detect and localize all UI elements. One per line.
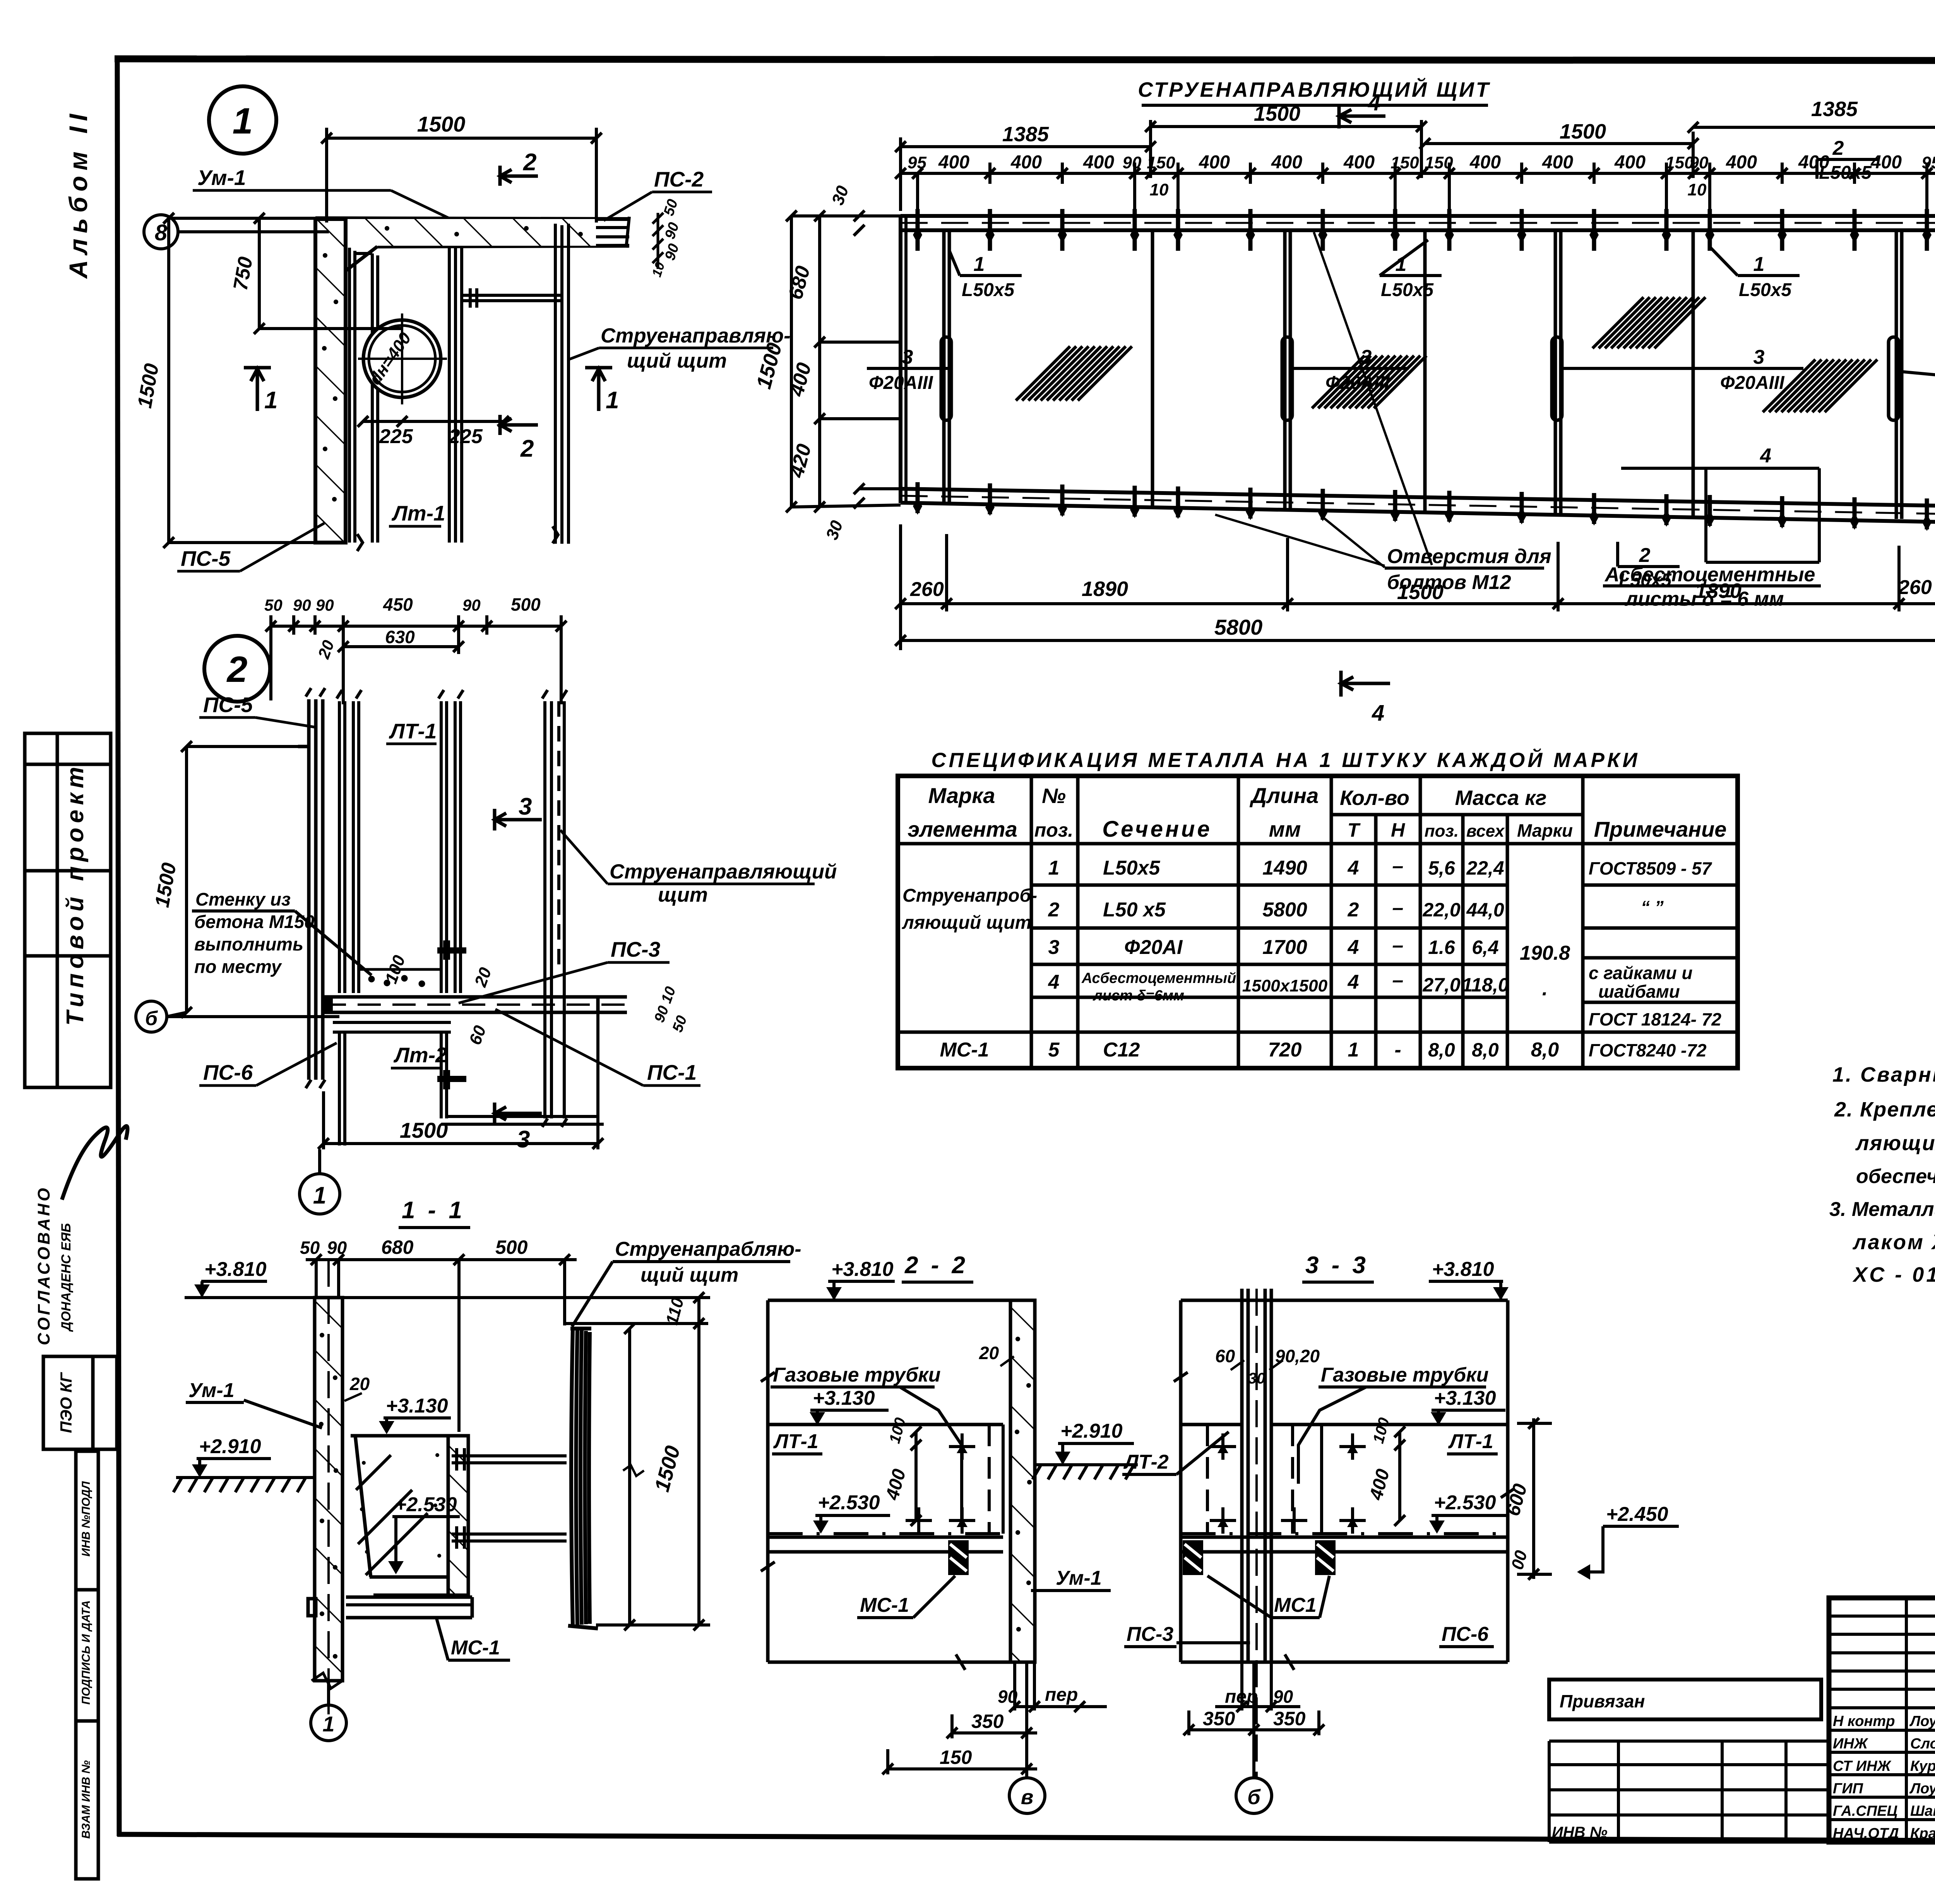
svg-text:ПС-5: ПС-5 <box>203 693 253 717</box>
svg-text:Альбом II: Альбом II <box>64 109 92 279</box>
svg-text:Струенапроб-: Струенапроб- <box>902 885 1037 906</box>
svg-text:ДОНАДЕНС ЕЯБ: ДОНАДЕНС ЕЯБ <box>59 1223 74 1332</box>
svg-text:ХС - 010 за 2 раза.: ХС - 010 за 2 раза. <box>1852 1263 1935 1286</box>
svg-text:1 - 1: 1 - 1 <box>402 1197 465 1224</box>
svg-text:50: 50 <box>300 1238 320 1258</box>
svg-text:№: № <box>1042 784 1066 808</box>
svg-text:+3.810: +3.810 <box>1432 1258 1494 1281</box>
svg-text:L50 x5: L50 x5 <box>1103 899 1166 921</box>
svg-text:8: 8 <box>155 220 168 245</box>
svg-text:ГОСТ 18124- 72: ГОСТ 18124- 72 <box>1589 1009 1721 1029</box>
svg-text:+3.130: +3.130 <box>813 1387 875 1409</box>
svg-text:МС-1: МС-1 <box>940 1039 989 1061</box>
svg-text:27,0: 27,0 <box>1422 974 1461 996</box>
dim 1500 top (detail 1) <box>321 128 602 223</box>
axis bubble в (2-2) <box>1009 1778 1045 1813</box>
svg-text:150: 150 <box>940 1746 972 1768</box>
svg-text:1500x1500: 1500x1500 <box>1242 976 1328 995</box>
svg-text:4: 4 <box>1048 971 1060 993</box>
3-3 outer box <box>1181 1300 1508 1662</box>
svg-text:Асбестоцементные: Асбестоцементные <box>1604 563 1815 586</box>
svg-text:2: 2 <box>226 649 248 690</box>
svg-text:5: 5 <box>1048 1039 1060 1061</box>
svg-text:90: 90 <box>327 1238 347 1258</box>
svg-text:Шапиро: Шапиро <box>1910 1803 1935 1819</box>
title block names <box>1833 1713 1935 1842</box>
svg-text:Лт-2: Лт-2 <box>393 1043 447 1067</box>
svg-text:Сложеникина: Сложеникина <box>1910 1736 1935 1752</box>
2-2 bottom band <box>768 1536 1003 1539</box>
lower-left grid <box>1549 1741 1829 1842</box>
svg-text:поз.: поз. <box>1034 819 1074 841</box>
1-1 wall bottom break <box>312 1673 342 1688</box>
svg-text:20: 20 <box>349 1374 370 1394</box>
svg-text:680: 680 <box>381 1236 414 1258</box>
svg-text:150: 150 <box>1425 153 1453 172</box>
svg-text:ИНЖ: ИНЖ <box>1833 1736 1868 1752</box>
dim 1500 left (node2) <box>167 741 309 1018</box>
section 1-1 top dims 50 90 680 500 <box>306 1254 577 1432</box>
3-3 dashed verticals and crosses <box>1207 1425 1322 1534</box>
section mark 4 top <box>1339 104 1385 128</box>
left margin signature <box>62 1126 128 1200</box>
2-2 channel section (black) <box>948 1540 969 1575</box>
bottom dim row 260/1890/1500/1890/260 <box>895 524 1935 650</box>
2-2 bottom dims <box>882 1662 1107 1777</box>
intermediate stiffeners <box>1152 230 1693 515</box>
2-2 dashed level line <box>768 1532 1003 1535</box>
1-1 bolts <box>452 1448 567 1549</box>
svg-text:ПС-2: ПС-2 <box>654 167 704 191</box>
svg-text:Т: Т <box>1348 819 1361 841</box>
1-1 wall <box>315 1298 342 1681</box>
title block outer <box>1829 1598 1935 1842</box>
svg-text:1500: 1500 <box>1254 102 1300 125</box>
svg-text:2: 2 <box>1832 137 1844 159</box>
svg-text:60: 60 <box>1215 1346 1235 1366</box>
svg-text:400: 400 <box>1010 152 1042 173</box>
svg-text:поз.: поз. <box>1425 822 1459 841</box>
svg-text:МС-1: МС-1 <box>451 1637 500 1659</box>
svg-text:4: 4 <box>1372 700 1384 726</box>
3-3 dashed level line <box>1181 1532 1508 1535</box>
svg-text:в: в <box>1021 1786 1034 1809</box>
svg-text:L50x5: L50x5 <box>1103 857 1161 879</box>
svg-text:Ф20АIII: Ф20АIII <box>869 373 933 393</box>
1-1 dim 1500 <box>623 1323 644 1630</box>
bolt marks along chords <box>918 209 1927 529</box>
svg-text:+2.530: +2.530 <box>818 1491 880 1514</box>
svg-text:720: 720 <box>1268 1039 1302 1061</box>
svg-text:90: 90 <box>293 596 311 614</box>
section mark 1 right <box>585 368 612 411</box>
svg-text:Ум-1: Ум-1 <box>1056 1567 1102 1589</box>
svg-text:ПС-3: ПС-3 <box>611 937 660 961</box>
svg-text:2: 2 <box>520 435 534 462</box>
level mark +2.450 with 600 dim <box>1517 1418 1552 1580</box>
svg-text:Ум-1: Ум-1 <box>197 166 246 190</box>
svg-text:Отверстия для: Отверстия для <box>1387 545 1551 568</box>
svg-text:-: - <box>1394 1039 1401 1061</box>
svg-text:Марки: Марки <box>1517 820 1573 841</box>
svg-text:225: 225 <box>379 425 413 448</box>
svg-text:Привязан: Привязан <box>1560 1691 1645 1711</box>
dim 1500 top left-center <box>1145 120 1427 178</box>
bolts node2 <box>437 940 466 1089</box>
svg-text:190.8: 190.8 <box>1520 942 1570 964</box>
svg-text:150: 150 <box>1147 153 1175 172</box>
3-3 riser pipe <box>1242 1289 1271 1662</box>
svg-text:4: 4 <box>1760 445 1771 467</box>
flow shield strip (node2) <box>542 690 567 1127</box>
svg-text:СТ ИНЖ: СТ ИНЖ <box>1833 1758 1892 1774</box>
svg-text:5800: 5800 <box>1262 899 1307 921</box>
svg-text:Типовой проект: Типовой проект <box>62 762 89 1026</box>
svg-text:5,6: 5,6 <box>1428 857 1456 879</box>
svg-text:400: 400 <box>1614 152 1646 173</box>
svg-text:5800: 5800 <box>1214 615 1263 639</box>
1-1 shield plate <box>568 1329 598 1628</box>
svg-text:1: 1 <box>322 1712 334 1736</box>
dim 1500 top right-center <box>1420 132 1699 178</box>
svg-text:МС-1: МС-1 <box>860 1594 909 1616</box>
svg-text:Сечение: Сечение <box>1102 817 1212 842</box>
left stamp table upper <box>25 733 111 1087</box>
svg-text:Ф20АI: Ф20АI <box>1124 936 1183 959</box>
svg-text:22,0: 22,0 <box>1422 899 1461 921</box>
dim 680/400/420 left vertical <box>814 211 901 512</box>
svg-text:1385: 1385 <box>1002 123 1049 146</box>
svg-text:260: 260 <box>1898 576 1932 599</box>
bolt tie between panels <box>462 288 562 308</box>
svg-text:ЛТ-1: ЛТ-1 <box>773 1430 819 1453</box>
svg-text:Струенаправляю-: Струенаправляю- <box>601 324 791 347</box>
axis bubble 1 (1-1) <box>311 1705 346 1741</box>
svg-text:1890: 1890 <box>1082 577 1128 601</box>
svg-text:L50x5: L50x5 <box>1739 280 1792 300</box>
svg-text:обеспечения влажностных деффар: обеспечения влажностных деффармаций лист… <box>1856 1165 1935 1188</box>
shelf ПС-3 beam <box>323 997 627 1012</box>
svg-text:Курганова: Курганова <box>1910 1758 1935 1774</box>
1-1 top level line <box>185 1296 617 1299</box>
svg-text:ПС-5: ПС-5 <box>181 546 231 570</box>
svg-text:–: – <box>1392 969 1404 991</box>
svg-text:150: 150 <box>1390 153 1419 172</box>
section mark 2 lower <box>500 415 538 435</box>
svg-text:3: 3 <box>519 793 532 820</box>
svg-text:2: 2 <box>1048 899 1060 921</box>
svg-text:225: 225 <box>449 425 483 448</box>
svg-text:Струенаправляющий: Струенаправляющий <box>610 860 837 883</box>
svg-text:б: б <box>145 1007 158 1030</box>
svg-text:90: 90 <box>1690 153 1709 172</box>
section mark 1 left <box>244 368 271 411</box>
wall panel ПС-5 strip <box>298 688 325 1088</box>
node 1 bubble <box>209 86 276 154</box>
svg-text:500: 500 <box>495 1236 528 1258</box>
axis bubble б (node2) <box>136 1001 167 1032</box>
spec table grid <box>898 776 1738 1068</box>
svg-text:10: 10 <box>1688 180 1707 199</box>
dims above node 2 <box>265 615 567 704</box>
svg-text:1: 1 <box>1753 253 1765 276</box>
svg-text:ПС-6: ПС-6 <box>203 1060 253 1084</box>
svg-text:+2.530: +2.530 <box>1434 1491 1496 1514</box>
axis bubble б (3-3) <box>1236 1778 1272 1813</box>
svg-text:щий щит: щий щит <box>627 349 727 372</box>
svg-text:10: 10 <box>1150 180 1169 199</box>
svg-text:б: б <box>1247 1786 1261 1809</box>
dim 1385 top left <box>895 137 1156 211</box>
svg-text:400: 400 <box>1343 152 1375 173</box>
svg-text:выполнить: выполнить <box>194 934 303 954</box>
3-3 bottom dims <box>1183 1662 1324 1777</box>
svg-text:90: 90 <box>1123 153 1142 172</box>
svg-text:Лоуцкер: Лоуцкер <box>1909 1781 1935 1797</box>
section mark 3 lower <box>495 1103 542 1124</box>
svg-text:1385: 1385 <box>1811 98 1858 121</box>
svg-text:по месту: по месту <box>194 956 283 977</box>
svg-text:+3.810: +3.810 <box>831 1258 894 1281</box>
asbestos sheet hatch patches <box>1016 346 1132 401</box>
svg-text:20: 20 <box>979 1343 999 1363</box>
svg-text:400: 400 <box>1870 152 1902 173</box>
svg-text:Газовые трубки: Газовые трубки <box>1321 1364 1488 1386</box>
svg-text:лаком ХС - 784 по ГОСТ 731: лаком ХС - 784 по ГОСТ 7313 - 75 за 3 ра… <box>1852 1231 1935 1254</box>
svg-text:90: 90 <box>316 596 334 614</box>
svg-text:2: 2 <box>523 149 536 176</box>
svg-text:Красавин: Красавин <box>1910 1825 1935 1842</box>
svg-text:3: 3 <box>517 1126 530 1153</box>
pipe center axes <box>358 358 447 360</box>
svg-text:+2.910: +2.910 <box>199 1435 261 1458</box>
svg-text:400: 400 <box>938 152 969 173</box>
svg-text:Масса кг: Масса кг <box>1455 786 1547 810</box>
svg-text:1.6: 1.6 <box>1428 937 1456 958</box>
svg-text:ЛТ-1: ЛТ-1 <box>389 719 437 743</box>
rebar rod loops at joints <box>941 337 1899 420</box>
svg-text:630: 630 <box>385 627 415 647</box>
svg-text:6,4: 6,4 <box>1472 937 1499 958</box>
svg-text:Лт-1: Лт-1 <box>391 501 445 525</box>
svg-text:Н: Н <box>1391 819 1405 841</box>
svg-text:90,20: 90,20 <box>1275 1346 1320 1366</box>
panel joint posts <box>944 230 1902 519</box>
svg-text:L50x5: L50x5 <box>1819 163 1872 183</box>
svg-text:260: 260 <box>910 578 944 601</box>
svg-text:1: 1 <box>1348 1039 1359 1061</box>
2-2 outer box <box>768 1300 1010 1662</box>
svg-text:L50x5: L50x5 <box>1381 280 1434 300</box>
3-3 bottom band <box>1181 1536 1508 1539</box>
section mark 2 upper <box>500 166 538 186</box>
plan view: flow-directing shield panel <box>901 216 1935 522</box>
svg-text:350: 350 <box>971 1711 1004 1732</box>
svg-text:щий щит: щий щит <box>640 1264 738 1286</box>
svg-text:с гайками и: с гайками и <box>1589 963 1692 983</box>
flow shield plate (right strip) <box>357 224 569 551</box>
svg-text:ЛТ-2: ЛТ-2 <box>1123 1451 1169 1473</box>
panel Лт-1 walls <box>349 247 462 543</box>
svg-text:щит: щит <box>658 884 708 906</box>
svg-text:500: 500 <box>511 594 541 615</box>
svg-text:ПС-1: ПС-1 <box>647 1060 697 1084</box>
shelf Лт-2 <box>333 1022 604 1145</box>
3-3 lotok top <box>1181 1423 1242 1426</box>
svg-text:L50x5: L50x5 <box>962 280 1015 300</box>
svg-text:Лоуцкер: Лоуцкер <box>1909 1713 1935 1729</box>
svg-text:–: – <box>1392 934 1404 957</box>
svg-text:ЛТ-1: ЛТ-1 <box>1448 1430 1493 1453</box>
infill concrete under panels <box>359 969 441 986</box>
svg-text:ГОСТ8240 -72: ГОСТ8240 -72 <box>1589 1040 1707 1060</box>
2-2 wall <box>1010 1300 1035 1662</box>
svg-text:1: 1 <box>974 253 985 276</box>
2-2 ground <box>1035 1463 1138 1466</box>
1-1 console bracket <box>351 1436 468 1595</box>
svg-text:ПС-3: ПС-3 <box>1127 1623 1173 1645</box>
svg-text:болтов М12: болтов М12 <box>1387 571 1511 594</box>
svg-text:2. Крепление асбестоцементны: 2. Крепление асбестоцементных листов б с… <box>1834 1098 1935 1121</box>
svg-text:ИНВ №ПОДЛ: ИНВ №ПОДЛ <box>80 1481 92 1556</box>
svg-text:1: 1 <box>264 387 277 414</box>
svg-text:Струенапрабляю-: Струенапрабляю- <box>615 1238 801 1260</box>
1-1 dim 110 <box>566 1292 710 1630</box>
small dims at slab end <box>652 213 663 269</box>
svg-text:+3.810: +3.810 <box>204 1258 267 1281</box>
svg-text:всех: всех <box>1466 822 1505 841</box>
margin box ПЭО КГ <box>43 1356 117 1449</box>
svg-text:1490: 1490 <box>1262 857 1307 879</box>
svg-text:30: 30 <box>1248 1370 1265 1387</box>
2-2 lotok top <box>768 1423 1003 1426</box>
svg-text:400: 400 <box>1083 152 1114 173</box>
svg-text:СОГЛАСОВАНО: СОГЛАСОВАНО <box>34 1186 53 1345</box>
axis bubble 8 <box>144 215 178 249</box>
svg-text:350: 350 <box>1273 1708 1306 1729</box>
svg-text:3: 3 <box>1753 346 1765 368</box>
svg-text:+3.130: +3.130 <box>1434 1387 1496 1409</box>
dim 750 <box>254 213 402 334</box>
svg-text:118,0: 118,0 <box>1462 974 1509 996</box>
svg-text:1: 1 <box>313 1182 326 1209</box>
margin column ИНВ <box>76 1451 98 1879</box>
svg-text:–: – <box>1392 897 1404 919</box>
svg-text:2 - 2: 2 - 2 <box>904 1252 968 1279</box>
svg-text:СПЕЦИФИКАЦИЯ МЕТАЛЛА НА 1: СПЕЦИФИКАЦИЯ МЕТАЛЛА НА 1 ШТУКУ КАЖДОЙ М… <box>931 748 1640 772</box>
svg-text:ПС-6: ПС-6 <box>1442 1623 1489 1645</box>
dim 1500 bottom (node2) <box>318 1012 603 1149</box>
svg-text:95: 95 <box>1922 153 1935 172</box>
svg-text:450: 450 <box>383 594 413 615</box>
svg-text:50: 50 <box>264 596 283 614</box>
svg-text:Марка: Марка <box>928 783 995 808</box>
svg-text:шайбами: шайбами <box>1598 981 1680 1002</box>
svg-text:1: 1 <box>1048 857 1060 879</box>
svg-text:400: 400 <box>1469 152 1501 173</box>
svg-text:22,4: 22,4 <box>1466 857 1504 879</box>
svg-text:–: – <box>1392 855 1404 877</box>
svg-text:44,0: 44,0 <box>1466 899 1504 921</box>
dim 225 225 <box>358 416 509 427</box>
svg-text:Длина: Длина <box>1250 783 1319 808</box>
svg-text:пер: пер <box>1225 1687 1258 1707</box>
svg-text:3: 3 <box>902 346 913 368</box>
svg-text:ляющих щитах выполнять без: ляющих щитах выполнять без перетяжки бол… <box>1855 1132 1935 1155</box>
3-3 channel sections (black) <box>1183 1540 1203 1575</box>
svg-text:4: 4 <box>1348 857 1359 879</box>
node 2 bubble <box>204 636 270 702</box>
svg-text:ГИП: ГИП <box>1833 1781 1863 1797</box>
svg-text:1700: 1700 <box>1262 936 1307 959</box>
svg-text:НАЧ.ОТД: НАЧ.ОТД <box>1833 1825 1899 1842</box>
svg-text:3 - 3: 3 - 3 <box>1305 1252 1369 1279</box>
pipe opening circle <box>363 320 441 397</box>
svg-text:+2.450: +2.450 <box>1606 1503 1668 1526</box>
svg-text:лист δ=6мм: лист δ=6мм <box>1093 988 1184 1004</box>
svg-text:С12: С12 <box>1103 1039 1140 1061</box>
svg-text:ГОСТ8509 - 57: ГОСТ8509 - 57 <box>1589 858 1712 878</box>
svg-text:ляющий щит: ляющий щит <box>902 913 1031 933</box>
svg-text:Примечание: Примечание <box>1594 817 1727 841</box>
svg-text:2: 2 <box>1348 899 1359 921</box>
section mark 3 upper <box>495 809 542 830</box>
2-2 dim 400 <box>911 1426 921 1526</box>
svg-text:400: 400 <box>1271 152 1302 173</box>
title block small table <box>1829 1598 1935 1842</box>
svg-text:ВЗАМ ИНВ №: ВЗАМ ИНВ № <box>80 1760 92 1839</box>
svg-text:8,0: 8,0 <box>1428 1039 1455 1061</box>
svg-text:90: 90 <box>462 596 481 614</box>
svg-text:+3.130: +3.130 <box>386 1395 448 1417</box>
svg-text:Асбестоцементный: Асбестоцементный <box>1081 970 1236 986</box>
wall concrete dots <box>322 226 583 502</box>
2-2 dashed verticals and crosses <box>989 1425 1003 1534</box>
svg-text:Ум-1: Ум-1 <box>188 1379 235 1402</box>
svg-text:“ ”: “ ” <box>1641 897 1664 917</box>
axis bubble 1 (node2 bottom) <box>300 1174 340 1214</box>
svg-text:8,0: 8,0 <box>1472 1039 1499 1061</box>
svg-text:Н контр: Н контр <box>1833 1713 1895 1729</box>
svg-text:ПОДПИСЬ И ДАТА: ПОДПИСЬ И ДАТА <box>80 1600 92 1705</box>
svg-text:3. Металлические конструкции о: 3. Металлические конструкции окрашиваютс… <box>1829 1198 1935 1221</box>
svg-text:Газовые трубки: Газовые трубки <box>773 1364 940 1386</box>
svg-text:Стенку из: Стенку из <box>195 889 291 909</box>
svg-text:СТРУЕНАПРАВЛЯЮЩИЙ ЩИТ: СТРУЕНАПРАВЛЯЮЩИЙ ЩИТ <box>1138 77 1491 101</box>
svg-text:ПЭО КГ: ПЭО КГ <box>57 1372 75 1433</box>
wall corner: vertical wall <box>315 219 377 543</box>
fine dim row <box>895 163 1935 211</box>
svg-text:400: 400 <box>1726 152 1757 173</box>
svg-text:мм: мм <box>1269 817 1301 841</box>
svg-text:+2.530: +2.530 <box>395 1493 457 1516</box>
svg-text:МС1: МС1 <box>1274 1594 1317 1616</box>
svg-text:элемента: элемента <box>908 817 1017 841</box>
svg-text:1: 1 <box>606 387 619 414</box>
svg-text:8,0: 8,0 <box>1531 1039 1559 1061</box>
svg-text:Кол-во: Кол-во <box>1340 786 1409 810</box>
svg-text:400: 400 <box>1542 152 1573 173</box>
panel ЛТ-1 walls (node2) <box>337 690 463 993</box>
section mark 4 bottom <box>1341 671 1390 697</box>
svg-text:350: 350 <box>1203 1708 1235 1729</box>
svg-text:1: 1 <box>233 101 253 142</box>
wall corner: top slab <box>315 217 629 248</box>
svg-text:листы δ = 6 мм: листы δ = 6 мм <box>1624 588 1784 610</box>
bottom dim 5800 <box>895 635 1935 646</box>
svg-text:4: 4 <box>1348 971 1359 993</box>
svg-text:90: 90 <box>1273 1687 1293 1707</box>
